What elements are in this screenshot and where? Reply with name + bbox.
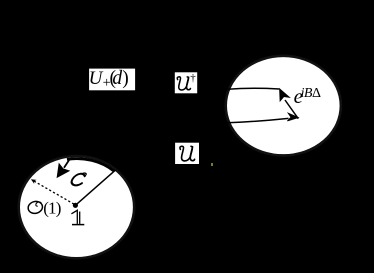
svg-text:): ) bbox=[122, 68, 129, 89]
svg-text:iBΔ: iBΔ bbox=[301, 86, 321, 101]
svg-text:†: † bbox=[190, 72, 196, 84]
svg-text:U: U bbox=[89, 68, 104, 89]
svg-text:d: d bbox=[112, 68, 122, 89]
svg-text:(1): (1) bbox=[43, 199, 61, 218]
